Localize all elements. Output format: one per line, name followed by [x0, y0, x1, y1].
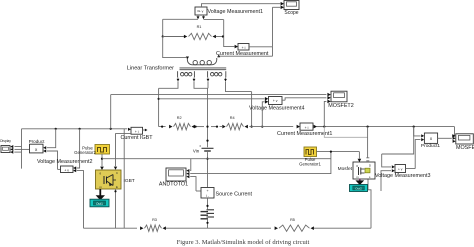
junction center rail gate cross	[206, 158, 208, 160]
svg-text:Product1: Product1	[421, 143, 441, 149]
igbt block IGBT	[96, 170, 122, 189]
svg-text:MOSFET2: MOSFET2	[328, 103, 353, 109]
junction on left rail	[158, 98, 160, 100]
linear transformer primary winding	[187, 58, 216, 65]
wire rail B to Voltage Measurement4 plus	[159, 97, 269, 101]
label MOSFET2	[328, 103, 353, 109]
wire rail tap to VM2 plus	[73, 129, 79, 170]
label Product1	[421, 143, 441, 149]
wire transformer primary right return loop	[217, 47, 272, 58]
svg-text:+ v: + v	[64, 168, 69, 172]
junction VM2 plus tap	[79, 128, 81, 130]
label Voltage Measurement3	[375, 173, 430, 179]
outport block Out1	[90, 199, 109, 207]
wire secondary1 dot terminal to left rail	[159, 82, 178, 89]
label IGBT	[124, 178, 135, 184]
svg-text:Product: Product	[29, 139, 46, 144]
transformer core	[180, 68, 227, 70]
display input 3 arrow	[10, 151, 21, 154]
wire VM1 minus to R1 right node	[204, 20, 224, 37]
wire rail tap to Product input 1	[43, 129, 56, 150]
wire VM4 output to MOSFET2 scope input 2	[282, 96, 331, 100]
svg-text:Voltage Measurement3: Voltage Measurement3	[375, 173, 430, 179]
caption	[177, 239, 310, 246]
junction row left	[161, 126, 163, 128]
center rail lower	[207, 152, 209, 187]
transformer terminal stubs	[177, 78, 227, 82]
junction battery top	[206, 205, 208, 207]
svg-text:Voltage Measurement1: Voltage Measurement1	[208, 9, 263, 15]
svg-text:ANDTOTO1: ANDTOTO1	[159, 182, 188, 188]
svg-text:Figure 3. Matlab/Simulink mode: Figure 3. Matlab/Simulink model of drivi…	[177, 239, 310, 246]
svg-text:Scope: Scope	[284, 10, 298, 16]
svg-text:R3: R3	[152, 218, 157, 222]
wire drain node to VM3 plus	[382, 127, 414, 169]
faint parallel wire	[324, 127, 367, 138]
wire secondary2 outer terminal down and right	[226, 82, 252, 127]
label Current Measurement	[216, 51, 269, 57]
wire row corner down to MOSFET3 scope input 1	[452, 127, 456, 138]
wire VM1 output to Scope input 1	[202, 2, 285, 7]
svg-text:IGBT: IGBT	[124, 178, 135, 184]
wire IGBT m output to Out1	[96, 189, 105, 200]
resistor R3	[140, 225, 271, 231]
wire Pulse Generator1 branch to ANDTOTO1 input 2	[186, 152, 331, 176]
wire node B to Current Measurement plus	[224, 37, 238, 49]
center vertical rail upper	[207, 88, 209, 147]
wire CM1 signal up to MOSFET2 scope input 3	[324, 100, 331, 127]
label Linear Transformer	[127, 65, 174, 71]
svg-text:+ i: + i	[135, 130, 139, 134]
svg-text:i -: i -	[206, 194, 209, 198]
label Current Measurement1	[277, 131, 332, 137]
collector rail horizontal	[22, 128, 132, 131]
svg-text:Voltage Measurement2: Voltage Measurement2	[37, 159, 92, 165]
current measurement block Source Current	[201, 188, 214, 199]
svg-text:Out1: Out1	[96, 202, 103, 206]
wire Pulse Generator2 output to IGBT gate	[100, 154, 104, 170]
label Current IGBT	[120, 135, 153, 141]
voltage measurement block Voltage Measurement2	[61, 166, 74, 173]
svg-text:+ v: + v	[398, 167, 403, 171]
transformer secondary winding 1	[178, 71, 195, 77]
svg-text:+ i: + i	[305, 126, 309, 130]
mosfet block Mosfet	[353, 162, 375, 179]
wire Current Measurement1 output	[314, 125, 325, 129]
resistor R1	[184, 33, 223, 39]
display block Display	[1, 146, 10, 153]
svg-text:Out2: Out2	[355, 187, 362, 191]
left vertical rail	[158, 88, 160, 126]
wire row down to Mosfet drain	[366, 127, 369, 161]
wire Product output to Display input 2	[10, 148, 29, 151]
wire center tap U of secondaries	[194, 82, 208, 89]
wire Product1 output to MOSFET3 input 2	[438, 137, 456, 140]
wire Source Current output to ANDTOTO1 input 3	[186, 175, 201, 191]
wire Current Measurement output up to Scope	[249, 7, 273, 47]
wire Current Measurement output to Scope input 2	[273, 6, 285, 10]
label Product	[29, 139, 46, 144]
junction PG1 branch	[330, 151, 332, 153]
svg-text:Generator2: Generator2	[74, 150, 96, 155]
junction R2 right	[194, 126, 196, 128]
junction gate rail	[101, 158, 103, 160]
pulse generator block Pulse Generator2	[95, 145, 110, 155]
junction product in1 tap	[55, 128, 57, 130]
junction stub4 row	[251, 126, 253, 128]
current measurement block Current Measurement1	[300, 123, 313, 130]
wire node A to R1	[163, 36, 184, 38]
svg-text:Voltage Measurement4: Voltage Measurement4	[249, 105, 304, 111]
label Mosfet	[338, 166, 353, 172]
wire into Current Measurement1 plus	[297, 125, 300, 129]
wire VM2 output to Product input 2	[43, 149, 60, 169]
svg-text:Mosfet: Mosfet	[338, 166, 353, 172]
resistor R5	[275, 225, 371, 231]
wire VM1 plus input stub	[197, 15, 200, 19]
label Scope	[284, 10, 298, 16]
junction VM4 minus row	[261, 126, 263, 128]
svg-text:+ v: + v	[199, 10, 204, 14]
wire IGBT emitter down to bottom rail	[114, 189, 116, 228]
wire bottom rail up to Mosfet source	[368, 179, 371, 228]
svg-text:Display: Display	[0, 139, 11, 143]
svg-text:E: E	[116, 185, 118, 189]
wire collector rail to Display input 1	[10, 129, 21, 169]
scope block ANDTOTO1	[166, 168, 186, 181]
svg-text:+ i: + i	[242, 46, 246, 50]
svg-text:R2: R2	[177, 116, 182, 120]
label Source Current	[216, 191, 253, 197]
svg-text:R4: R4	[230, 116, 235, 120]
junction battery to bottom rail	[206, 222, 208, 224]
junction rail A link	[110, 128, 112, 130]
resistor R2	[169, 123, 204, 129]
label R3	[152, 218, 157, 222]
svg-text:Vin: Vin	[193, 148, 200, 153]
outport block Out2	[350, 185, 368, 192]
svg-text:Current IGBT: Current IGBT	[120, 135, 153, 141]
label Pulse Generator2	[74, 145, 96, 155]
label ANDTOTO1	[159, 182, 188, 188]
node A junction	[162, 35, 164, 37]
wire Mosfet m output to Out2	[355, 179, 364, 185]
wire rail A link vertical	[110, 95, 112, 129]
svg-text:+ v: + v	[273, 99, 278, 103]
voltage measurement block Voltage Measurement1	[195, 7, 207, 15]
junction product tap	[413, 126, 415, 128]
wire bottom rail to VM2 minus	[73, 169, 83, 228]
label R4	[230, 116, 235, 120]
voltage measurement block Voltage Measurement4	[269, 97, 283, 105]
label R2	[177, 116, 182, 120]
label R5	[290, 218, 295, 222]
product block Product1	[424, 133, 437, 143]
junction drain drop	[367, 126, 369, 128]
svg-text:R5: R5	[290, 218, 295, 222]
pulse generator block Pulse Generator1	[304, 147, 317, 157]
wire source node to VM3 minus	[381, 169, 395, 191]
label Display	[0, 139, 11, 143]
wire Current IGBT minus to IGBT collector	[114, 133, 131, 169]
main middle row wire	[159, 126, 455, 128]
wire gate rail down to ANDTOTO1 input 1	[186, 159, 190, 173]
current measurement block Current Measurement	[238, 44, 249, 51]
label MOSFET3	[456, 145, 474, 151]
label Pulse Generator1	[299, 157, 321, 167]
junction above Vin	[206, 140, 208, 142]
wire VM1 minus input stub	[202, 15, 205, 19]
scope block Scope	[284, 1, 299, 10]
scope block MOSFET2	[331, 91, 347, 102]
wire VM4 minus input	[262, 100, 268, 127]
wire node A to transformer primary left	[163, 37, 189, 60]
wire rail A collector to MOSFET2 scope input 1	[111, 93, 331, 97]
label Voltage Measurement2	[37, 159, 92, 165]
resistor R4	[211, 123, 248, 129]
wire VM1 plus to node A	[163, 19, 198, 36]
node B junction	[222, 35, 224, 37]
wire Current IGBT output stub	[143, 129, 148, 132]
label Vin	[193, 148, 200, 153]
svg-text:Source Current: Source Current	[216, 191, 253, 197]
current measurement block Current IGBT	[131, 127, 143, 134]
label R1	[197, 25, 202, 29]
battery stack below Source Current	[201, 198, 215, 228]
junction CM1 output node	[323, 126, 325, 128]
svg-text:MOSFET3: MOSFET3	[456, 145, 474, 151]
dc voltage source Vin	[200, 146, 214, 152]
transformer secondary winding 2	[208, 71, 226, 77]
wire Pulse Generator1 output to Mosfet gate	[317, 152, 362, 163]
svg-text:+: +	[206, 189, 208, 193]
svg-text:Generator1: Generator1	[299, 162, 321, 167]
svg-text:R1: R1	[197, 25, 202, 29]
wire VM3 output to Product1 input 2	[406, 138, 425, 169]
junction center rail row	[206, 126, 208, 128]
gate signal rail	[102, 158, 331, 160]
label Voltage Measurement1	[208, 9, 263, 15]
bottom rail left segment	[84, 227, 138, 229]
wire row tap to Product1 input 1	[414, 127, 425, 138]
long vertical wire right of IGBT	[123, 129, 125, 228]
svg-text:D: D	[369, 164, 371, 168]
scope block MOSFET3	[453, 134, 474, 144]
svg-text:Linear Transformer: Linear Transformer	[127, 65, 174, 71]
svg-text:C: C	[116, 171, 118, 175]
voltage measurement block Voltage Measurement3	[395, 165, 406, 173]
label Voltage Measurement4	[249, 105, 304, 111]
product block Product	[30, 144, 44, 153]
